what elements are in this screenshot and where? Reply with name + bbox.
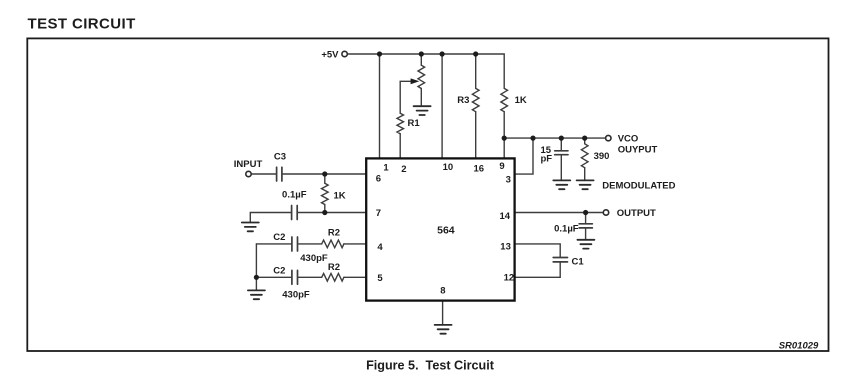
svg-text:6: 6 [376,174,381,185]
wire 0.1uF output bottom [585,228,587,240]
svg-text:C2: C2 [273,232,285,243]
wire 15pF bottom [560,155,562,181]
svg-text:VCO: VCO [618,134,639,145]
wire 1K input bottom [324,205,326,213]
svg-text:+5V: +5V [321,49,339,60]
svg-text:R3: R3 [457,95,469,106]
wire 390 bottom [584,168,586,181]
wire C2b row left [256,276,291,278]
capacitor 0.1uF output plates [579,224,592,228]
svg-text:5: 5 [377,273,383,284]
resistor 1K (top) zigzag [501,88,508,111]
wire pot top [420,54,422,65]
wire pin 3 hook [515,138,533,174]
svg-text:430pF: 430pF [282,290,310,301]
wire C2b to R2b [299,276,322,278]
svg-text:430pF: 430pF [300,253,328,264]
svg-text:10: 10 [443,162,454,173]
ground 15pF [553,180,570,189]
wire R2a to pin 4 [344,243,366,245]
wire R2b to pin 5 [344,276,366,278]
svg-text:pF: pF [541,154,553,165]
svg-text:390: 390 [594,151,610,162]
svg-text:C1: C1 [572,256,585,267]
capacitor 0.1uF input plates [292,206,298,220]
pot wiper arrowhead [411,78,420,84]
wire C1 to pin 12 [515,262,560,277]
wire pin 7 [298,212,366,214]
svg-text:C2: C2 [273,265,285,276]
svg-text:OUYPUT: OUYPUT [618,145,658,156]
svg-text:1K: 1K [515,95,527,106]
svg-text:TEST CIRCUIT: TEST CIRCUIT [28,16,136,33]
wire 1K input top [324,174,326,183]
terminal INPUT [246,171,251,176]
wire pin 14 to OUTPUT [515,212,603,214]
svg-text:R2: R2 [328,262,340,273]
svg-text:1K: 1K [334,191,346,202]
svg-text:16: 16 [474,164,485,175]
terminal OUTPUT [603,210,608,215]
ground C2 branch [248,290,265,299]
svg-text:OUTPUT: OUTPUT [617,208,656,219]
svg-text:14: 14 [500,211,511,222]
svg-text:R1: R1 [408,118,421,129]
IC U1 564 box [366,158,514,300]
wire pin 2 [399,134,401,159]
resistor 1K (input) zigzag [322,183,329,204]
svg-text:4: 4 [377,242,383,253]
wire 15pF top [560,138,562,151]
capacitor C2a plates [292,237,298,251]
border frame [27,38,828,351]
svg-text:INPUT: INPUT [234,159,263,170]
svg-text:1: 1 [383,163,389,174]
wire R3 top [475,54,477,88]
svg-text:0.1µF: 0.1µF [554,223,579,234]
wire INPUT to C3 [251,173,275,175]
ground pin 8 [435,325,452,334]
svg-text:9: 9 [499,161,504,172]
ground 0.1uF output [577,240,594,249]
svg-text:0.1µF: 0.1µF [282,189,307,200]
resistor R3 zigzag [472,88,479,111]
wire VCO rail [504,137,605,139]
potentiometer R-top zigzag [418,65,425,88]
terminal VCO output [606,135,611,140]
svg-text:SR01029: SR01029 [779,340,819,351]
svg-text:DEMODULATED: DEMODULATED [602,180,675,191]
svg-text:R2: R2 [328,227,340,238]
junction dots [377,51,382,56]
wire C3 to pin 6 [283,173,366,175]
wire pot wiper [400,81,412,113]
wire pin 10 [441,54,443,158]
svg-text:13: 13 [500,242,511,253]
terminal +5V [342,51,347,56]
wire pot bottom to ground [420,89,422,107]
wire C2a to R2a [299,243,322,245]
svg-text:12: 12 [504,272,515,283]
capacitor 15pF plates [555,151,568,155]
capacitor C3 plates [277,167,282,181]
svg-text:7: 7 [376,208,381,219]
resistor R1 zigzag [397,113,404,133]
capacitor C1 plates [553,258,567,262]
wire pin 8 to ground [442,301,444,325]
resistor 390 zigzag [581,144,588,168]
wire 390 top [584,138,586,144]
wire pin 13 to C1 [515,244,560,257]
wire +5V top rail [348,54,504,88]
ground input 0.1uF [242,223,259,232]
svg-text:8: 8 [440,286,445,297]
resistor R2b zigzag [322,274,344,282]
ground 390 [577,180,594,189]
svg-text:Figure 5. Test Circuit: Figure 5. Test Circuit [366,359,495,373]
svg-text:3: 3 [506,174,511,185]
ground pot [414,106,431,115]
wire C2a row left [256,243,291,245]
capacitor C2b plates [292,270,298,284]
svg-text:2: 2 [401,164,406,175]
resistor R2a zigzag [322,240,344,248]
wire pin 16 [475,112,477,159]
wire 0.1uF output top [585,213,587,224]
wire pin 9 [503,112,505,159]
wire pin 1 [379,54,381,158]
svg-text:564: 564 [437,224,455,236]
wire C2a left vertical [255,244,257,291]
svg-text:C3: C3 [274,151,286,162]
wire 0.1uF input right [250,213,290,223]
